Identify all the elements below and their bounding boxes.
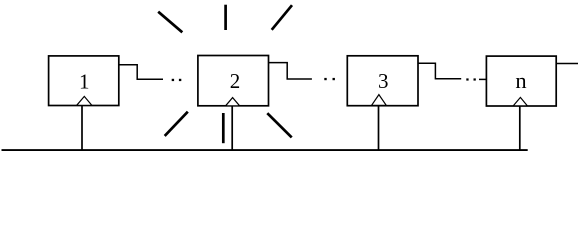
svg-text:2: 2 — [230, 69, 241, 93]
svg-text:n: n — [515, 68, 526, 93]
svg-text:3: 3 — [378, 69, 389, 93]
svg-text:1: 1 — [79, 70, 90, 94]
